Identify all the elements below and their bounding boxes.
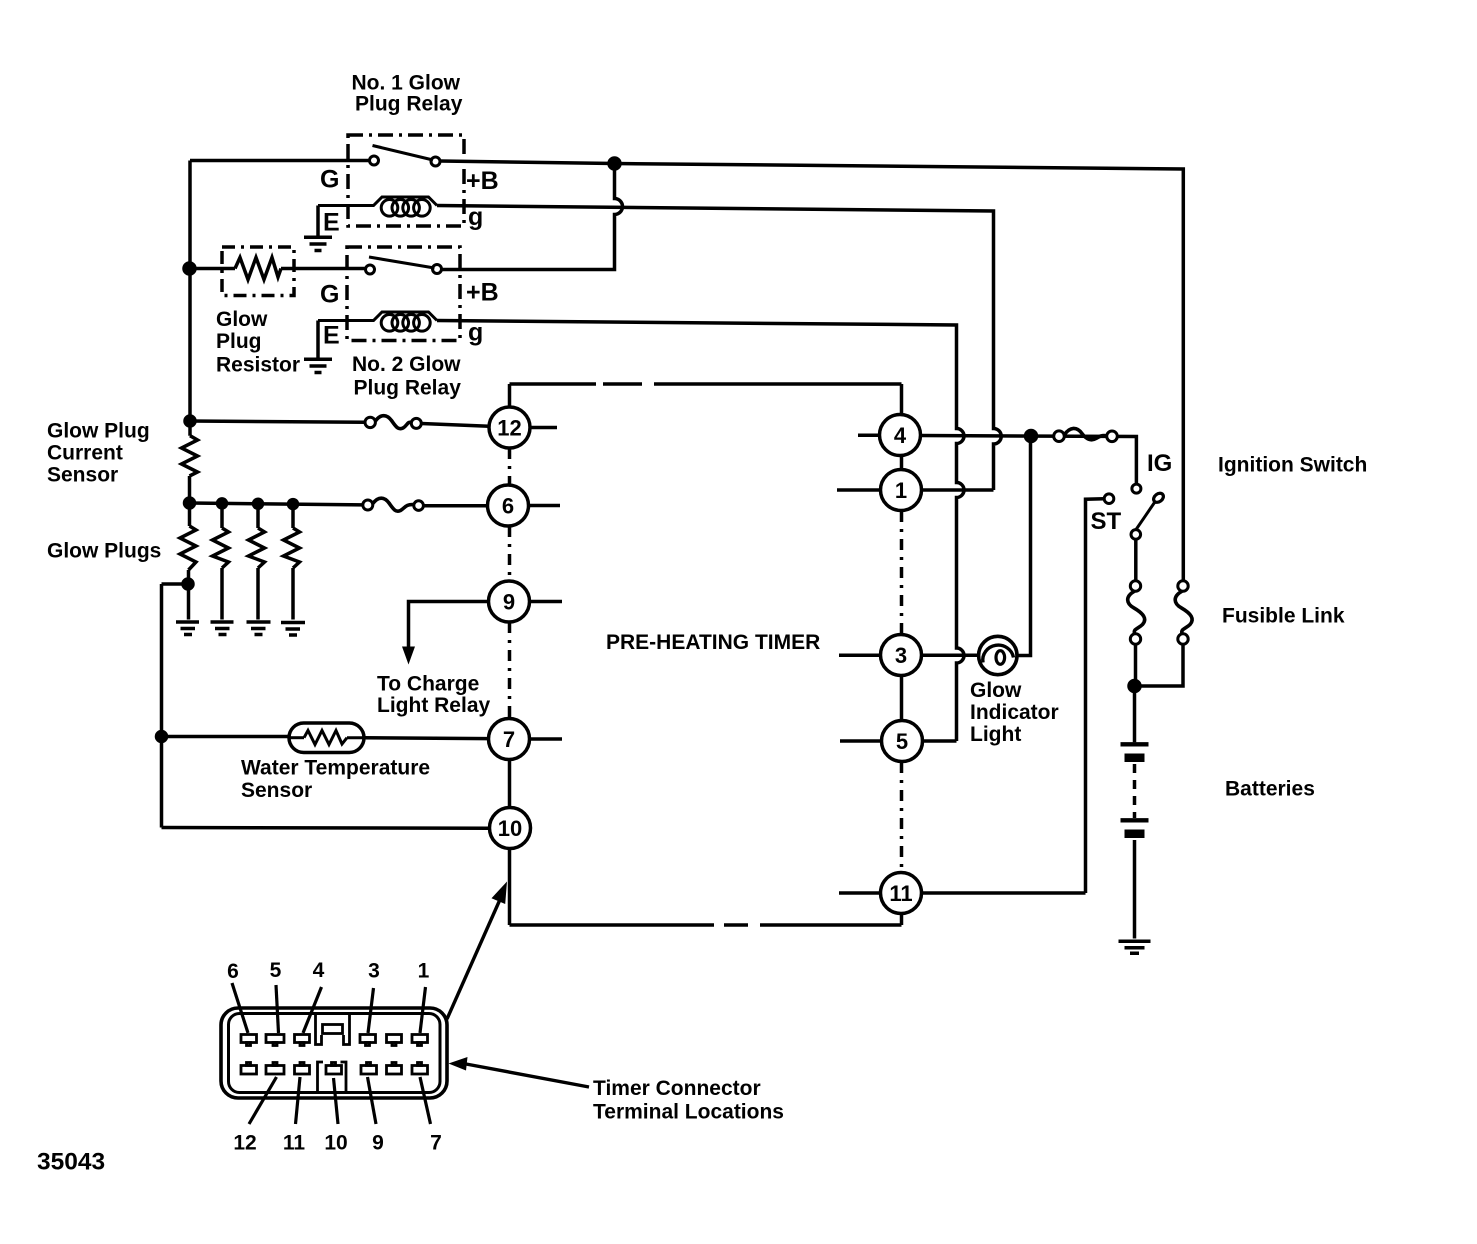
pin circle 7 [489, 719, 530, 760]
node: junction dot above battery [1129, 681, 1140, 692]
svg-text:Resistor: Resistor [216, 354, 300, 377]
wire: pin 9 inner stub [530, 600, 562, 604]
node: junction dot glow plug bus left [185, 498, 195, 508]
coil loops: No.2 relay [381, 315, 430, 332]
terminal pin (bottom unlabeled right) [387, 1063, 402, 1075]
wire: to water temperature sensor [162, 735, 290, 739]
terminal pin 5 [266, 1035, 284, 1046]
wire: glow plug bus to timer pin 6 [190, 503, 488, 506]
pin circle 10 [490, 808, 531, 849]
leader line: pin 6 label [232, 983, 248, 1033]
svg-text:3: 3 [895, 643, 907, 668]
leader line: pin 5 label [276, 985, 279, 1033]
switch: ignition switch pivot contact [1131, 530, 1141, 540]
svg-text:PRE-HEATING TIMER: PRE-HEATING TIMER [606, 631, 820, 654]
wire: glow plug 1 branch left and down to water temp sensor / pin 10 [162, 584, 189, 828]
svg-text:7: 7 [430, 1132, 442, 1155]
fusible link 2 (right, from +B feed) [1178, 634, 1188, 644]
wire: pin 11 inner stub [839, 891, 881, 895]
svg-text:Sensor: Sensor [47, 464, 118, 487]
leader line: pin 7 label [420, 1077, 431, 1124]
svg-text:g: g [468, 203, 483, 231]
resistor: glow plug 2 [220, 503, 224, 528]
leader line: pin 4 label [303, 987, 322, 1033]
wire: No.2 relay E lead [316, 321, 320, 360]
coil: No.2 relay coil leads and body [318, 312, 437, 321]
svg-text:Current: Current [47, 442, 123, 465]
component box: glow plug resistor dashed box [222, 247, 294, 296]
svg-text:g: g [468, 319, 483, 347]
wire: fusible link 1 to battery junction [1134, 644, 1138, 686]
svg-text:To Charge: To Charge [377, 673, 479, 696]
connector: key bottom [318, 1062, 347, 1091]
wire: +B feed from No.1 relay to top-right then down to fusible link [440, 161, 1183, 580]
wire: pin 12 inner stub [530, 426, 557, 430]
wire: water temp sensor to timer pin 7 [364, 736, 489, 740]
node: bus dot 4 [289, 500, 298, 509]
wire: pin 5 inner stub [840, 739, 882, 743]
wire: IG pivot down to fusible link [1134, 539, 1138, 580]
svg-text:Ignition Switch: Ignition Switch [1218, 454, 1367, 477]
svg-text:ST: ST [1091, 508, 1122, 535]
wire: No.2 relay g coil to right then down to timer pin 5 (hops over pin4, pin1, pin3 wires) [437, 321, 964, 742]
node: junction dot at glow plug resistor tap [184, 263, 195, 274]
wire: pin 9 to charge light relay arrow [409, 602, 489, 649]
pin circle 3 [881, 635, 922, 676]
resistor: water temp sensor element [289, 736, 304, 739]
node: junction dot pin4/indicator light [1026, 431, 1037, 442]
terminal pin 2 (unlabeled) [387, 1035, 402, 1046]
leader line: pin 10 label [334, 1078, 339, 1124]
terminal pin 11 [295, 1063, 310, 1075]
svg-text:+B: +B [466, 279, 499, 307]
svg-text:12: 12 [233, 1132, 256, 1155]
wire: left vertical bus from relay feed down to glow plug bus [188, 161, 192, 436]
contact: No.2 relay switch left contact [366, 265, 375, 274]
wire: pin 6 inner stub [529, 504, 561, 508]
svg-text:Plug Relay: Plug Relay [355, 93, 463, 116]
wire: pin 7 inner stub [530, 737, 562, 741]
svg-text:9: 9 [503, 590, 515, 615]
contact: No.2 relay switch right contact [433, 265, 442, 274]
switch blade: No.2 relay [369, 257, 435, 268]
wire: pin 3 to glow indicator light [922, 654, 980, 658]
connector: inner shell [229, 1014, 441, 1093]
resistor: glow plug 3 [256, 504, 260, 528]
ground: glow plug 2 [211, 622, 234, 635]
relay box: No.2 glow plug relay dashed outline [347, 247, 460, 341]
svg-text:3: 3 [368, 960, 380, 983]
coil loops: No.1 relay [381, 200, 430, 217]
svg-text:Sensor: Sensor [241, 779, 312, 802]
contact: No.1 relay switch right contact [431, 157, 440, 166]
svg-text:11: 11 [889, 881, 912, 906]
lamp: glow indicator light bulb [979, 636, 1017, 674]
pin circle 6 [488, 485, 529, 526]
svg-text:Batteries: Batteries [1225, 778, 1315, 801]
wire: battery to ground [1133, 840, 1137, 939]
resistor: glow plug current sensor [182, 436, 198, 476]
svg-text:Glow Plugs: Glow Plugs [47, 540, 161, 563]
resistor: glow plug 4 [291, 504, 295, 528]
svg-text:Timer Connector: Timer Connector [593, 1077, 761, 1100]
svg-text:Fusible Link: Fusible Link [1222, 605, 1345, 628]
svg-text:1: 1 [418, 960, 430, 983]
pin circle 12 [489, 407, 530, 448]
pin circle 4 [880, 415, 921, 456]
svg-text:12: 12 [497, 416, 521, 441]
svg-text:9: 9 [372, 1132, 384, 1155]
battery cell 2 negative plate [1125, 830, 1145, 839]
svg-text:Plug Relay: Plug Relay [354, 377, 462, 400]
terminal pin 4 [295, 1035, 310, 1046]
wire: pin 1 inner stub [837, 488, 881, 492]
svg-text:35043: 35043 [37, 1149, 105, 1176]
leader line: pin 12 label [249, 1077, 277, 1124]
terminal pin 6 [241, 1035, 257, 1046]
wire: to timer pin 12 [190, 421, 489, 426]
svg-text:No. 2 Glow: No. 2 Glow [352, 353, 461, 376]
terminal pin 10 [326, 1063, 342, 1075]
wire: pin 1 to relay 1 g drop [922, 488, 994, 492]
pin circle 1 [881, 470, 922, 511]
arrow: timer connector terminal locations callout [466, 1064, 589, 1087]
terminal pin 3 [360, 1035, 376, 1046]
svg-text:No. 1 Glow: No. 1 Glow [352, 72, 461, 95]
arrow: connector to timer pin 10 [447, 900, 500, 1020]
node: junction dot at water temp sensor branch [157, 732, 167, 742]
fusible link 1 (left) [1130, 581, 1140, 591]
fuse: sensor line fuse to pin 12 [365, 417, 375, 427]
ground: glow plug 4 [281, 623, 305, 636]
timer box: bottom edge [510, 923, 902, 927]
ground: glow plug 3 [247, 622, 271, 635]
svg-text:G: G [320, 166, 339, 194]
switch: ST terminal contact [1104, 494, 1114, 504]
connector: key top [316, 1014, 350, 1045]
svg-text:Terminal Locations: Terminal Locations [593, 1101, 784, 1124]
leader line: pin 9 label [368, 1077, 377, 1124]
wire: dashed link between battery cells [1133, 764, 1137, 818]
wire: ST terminal down leg [1086, 499, 1105, 893]
wire: vertical from +B junction down to No.2 relay +B (hop over g wire) [441, 164, 623, 270]
water temperature sensor: stadium outline [289, 723, 364, 753]
svg-text:7: 7 [503, 727, 515, 752]
pin circle 9 [489, 581, 530, 622]
svg-text:Glow: Glow [216, 308, 268, 331]
timer box: top edge [510, 382, 902, 386]
terminal pin 7 [412, 1063, 428, 1075]
svg-text:Glow: Glow [970, 679, 1022, 702]
ground: No.1 relay E ground [304, 237, 332, 250]
contact: No.1 relay switch left contact [370, 156, 379, 165]
leader line: pin 11 label [296, 1077, 301, 1124]
node: junction dot at current sensor top / pin12 wire [185, 416, 195, 426]
wire: pin 4 to ignition switch IG [921, 436, 1137, 484]
battery cell 1 negative plate [1125, 754, 1145, 763]
battery cell 1 positive plate [1121, 742, 1149, 746]
svg-text:Glow Plug: Glow Plug [47, 420, 150, 443]
battery cell 2 positive plate [1121, 818, 1149, 822]
svg-text:6: 6 [502, 494, 514, 519]
arrowhead: to charge light relay [402, 647, 415, 665]
svg-text:5: 5 [270, 959, 282, 982]
timer box: right edge segments [900, 384, 904, 414]
ground: battery ground [1119, 941, 1151, 953]
fuse: line fuse before ignition switch [1054, 431, 1065, 442]
switch blade: ignition switch [1136, 503, 1155, 530]
svg-text:10: 10 [498, 816, 522, 841]
pin circle 11 [881, 873, 922, 914]
svg-text:Light Relay: Light Relay [377, 694, 491, 717]
resistor: glow plug 1 [188, 503, 192, 526]
svg-text:Light: Light [970, 723, 1021, 746]
switch blade: No.1 relay [373, 146, 434, 161]
connector: outer shell [221, 1008, 447, 1098]
node: bus dot 3 [254, 499, 263, 508]
wire: bottom branch to timer pin 10 [162, 826, 490, 830]
svg-text:+B: +B [466, 167, 499, 195]
node: junction dot at glow plug 1 bottom [183, 579, 193, 589]
svg-text:5: 5 [896, 729, 908, 754]
ground: No.2 relay E ground [304, 359, 332, 372]
svg-text:1: 1 [895, 478, 907, 503]
terminal pin 1 [412, 1035, 428, 1046]
svg-text:IG: IG [1147, 450, 1172, 477]
leader line: pin 3 label [368, 988, 374, 1033]
wire: pin 11 to ST terminal [922, 891, 1086, 895]
wire: junction to fusible link 2 [1135, 644, 1184, 686]
wire: junction down to glow indicator light [1017, 436, 1031, 656]
wire: current sensor to glow plug bus [188, 476, 192, 503]
wire: through glow plug resistor to No.2 relay switch [190, 267, 366, 271]
terminal pin 12 [266, 1063, 284, 1075]
node: bus dot 2 [218, 499, 227, 508]
svg-text:11: 11 [283, 1132, 306, 1155]
timer box: left edge segments [508, 384, 512, 407]
wire: pin 4 inner stub [858, 434, 880, 438]
wire: pin 3 inner stub [839, 654, 881, 658]
node: junction dot at +B branch [609, 158, 620, 169]
resistor: glow plug resistor zigzag [235, 258, 281, 280]
wire: top-left feed into No.1 relay switch [190, 159, 370, 163]
ground: glow plug 1 [176, 622, 199, 635]
svg-text:4: 4 [894, 423, 907, 448]
svg-text:Indicator: Indicator [970, 701, 1059, 724]
svg-text:G: G [320, 281, 339, 309]
svg-text:4: 4 [313, 959, 325, 982]
svg-text:6: 6 [227, 960, 239, 983]
wire: No.1 relay g coil to right then down to timer pin 1 [437, 206, 1001, 491]
terminal pin (bottom unlabeled left) [241, 1063, 257, 1075]
pin circle 5 [882, 721, 923, 762]
wire: pin 5 to relay 2 g drop [923, 739, 957, 743]
wire: No.1 relay E lead [316, 206, 320, 238]
leader line: pin 1 label [420, 987, 426, 1033]
svg-text:E: E [323, 209, 340, 237]
svg-text:Water Temperature: Water Temperature [241, 757, 430, 780]
battery: feed wire [1133, 686, 1137, 742]
svg-text:E: E [323, 322, 340, 350]
switch: ignition switch IG fixed contact [1132, 484, 1141, 493]
coil: No.1 relay coil leads and body [318, 197, 437, 206]
fuse: bus line fuse to pin 6 [363, 500, 373, 510]
svg-text:10: 10 [324, 1132, 347, 1155]
svg-text:Plug: Plug [216, 330, 262, 353]
terminal pin 9 [361, 1063, 377, 1075]
switch: IG blade tip loop [1152, 491, 1165, 504]
relay box: No.1 glow plug relay dashed outline [348, 135, 464, 226]
